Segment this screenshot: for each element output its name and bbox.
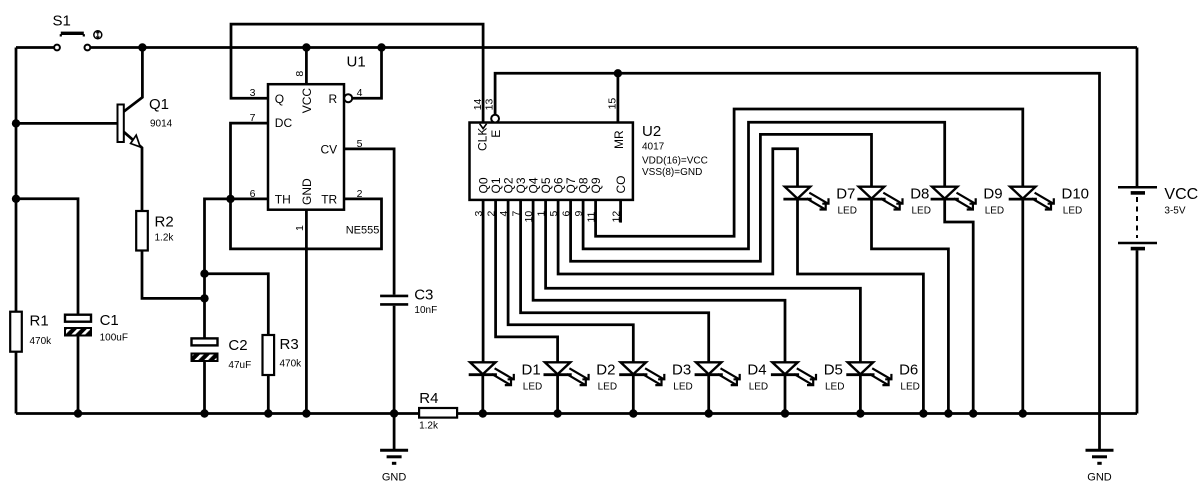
wire C1 top from left rail <box>16 199 78 315</box>
svg-text:C1: C1 <box>100 312 119 329</box>
LED D1 <box>469 362 514 385</box>
battery VCC wire top <box>1136 48 1139 188</box>
svg-text:LED: LED <box>825 381 844 392</box>
wire VCC top rail from S1 to battery <box>90 46 1137 49</box>
wire TR loop <box>231 199 382 249</box>
wire R1 bottom to ground rail <box>15 352 18 414</box>
svg-text:470k: 470k <box>30 336 53 347</box>
battery VCC plate long top <box>1118 186 1157 189</box>
svg-text:4017: 4017 <box>642 141 665 152</box>
node junction dot C1 on bottom rail <box>74 409 82 417</box>
svg-text:CO: CO <box>614 176 628 194</box>
wire U1 pin3 Q output to U2 CLK <box>231 24 483 122</box>
wire Q1 base from left rail <box>16 122 118 125</box>
svg-text:LED: LED <box>900 381 919 392</box>
svg-text:D2: D2 <box>596 361 615 378</box>
svg-text:D7: D7 <box>836 186 855 203</box>
wire D4 cathode to rail <box>707 375 710 414</box>
wire D1 cathode to rail <box>481 375 484 414</box>
node junction dot U1 pin4 wire on VCC rail <box>377 43 385 51</box>
node junction dot R3 branch <box>200 270 208 278</box>
svg-text:S1: S1 <box>53 13 71 30</box>
resistor R1 body <box>10 312 22 352</box>
svg-text:R: R <box>329 92 338 106</box>
svg-text:C3: C3 <box>414 287 433 304</box>
wire Q5 to D6 <box>546 200 861 362</box>
capacitor C1 positive plate <box>65 315 91 322</box>
capacitor C1 negative hatched plate <box>65 328 91 336</box>
svg-text:8: 8 <box>294 71 306 77</box>
ground symbol right <box>1086 450 1114 463</box>
wire D2 cathode to rail <box>556 375 559 414</box>
svg-text:6: 6 <box>250 188 256 200</box>
capacitor C2 negative hatched plate <box>192 354 218 362</box>
svg-text:VCC: VCC <box>300 88 314 114</box>
svg-text:R3: R3 <box>280 336 299 353</box>
svg-text:LED: LED <box>985 206 1004 217</box>
ground symbol left <box>380 450 408 463</box>
wire Q8 to D9 <box>583 122 945 249</box>
svg-text:LED: LED <box>598 381 617 392</box>
svg-text:R4: R4 <box>419 390 438 407</box>
resistor R2 body <box>136 211 148 251</box>
node junction dot base wire on left rail <box>12 119 20 127</box>
svg-text:3-5V: 3-5V <box>1164 206 1185 217</box>
node junction dot U1 pin1 on bottom rail <box>302 409 310 417</box>
svg-text:7: 7 <box>250 112 256 124</box>
wire U1 pin5 CV to C3 <box>344 149 394 295</box>
battery VCC plate short top <box>1131 191 1145 195</box>
wire U1 pin8 VCC <box>305 48 308 85</box>
battery VCC plate short bottom <box>1131 247 1145 251</box>
wire VCC top rail left segment (left rail to S1) <box>16 46 54 49</box>
svg-text:47uF: 47uF <box>228 360 251 371</box>
wire U1 pin7 DC to node <box>231 123 269 199</box>
counter U2 CLK arrow <box>480 124 487 129</box>
svg-text:Q: Q <box>275 92 284 106</box>
svg-text:D10: D10 <box>1062 186 1090 203</box>
wire U1 pin4 to VCC rail <box>352 48 381 99</box>
svg-text:LED: LED <box>673 381 692 392</box>
svg-text:1: 1 <box>294 225 306 231</box>
svg-text:LED: LED <box>1063 206 1082 217</box>
battery VCC plate long bottom <box>1118 242 1157 245</box>
wire Q3 to D4 <box>521 200 709 362</box>
svg-text:1.2k: 1.2k <box>419 421 439 432</box>
svg-text:GND: GND <box>1087 472 1112 484</box>
node junction dot MR on E rail <box>614 69 622 77</box>
svg-text:LED: LED <box>838 206 857 217</box>
svg-text:E: E <box>489 130 503 138</box>
node junction dot U1 pin8 on VCC rail <box>302 43 310 51</box>
svg-text:CLK: CLK <box>475 128 489 151</box>
svg-text:TR: TR <box>321 193 337 207</box>
wire left rail vertical <box>15 48 18 312</box>
battery VCC wire bottom <box>1136 250 1139 413</box>
svg-text:DC: DC <box>275 116 293 130</box>
node junction dot D8 on rail <box>944 409 952 417</box>
svg-text:NE555: NE555 <box>346 225 380 237</box>
svg-text:5: 5 <box>357 138 363 150</box>
svg-text:GND: GND <box>382 472 407 484</box>
node junction dot D10 on rail <box>1019 409 1027 417</box>
svg-text:U1: U1 <box>347 54 366 71</box>
svg-text:D8: D8 <box>910 186 929 203</box>
transistor Q1 emitter arrow <box>131 135 141 147</box>
wire D7 cathode to rail <box>798 199 924 413</box>
wire U2 E and MR rail to right side <box>495 73 1099 450</box>
svg-text:D1: D1 <box>522 361 541 378</box>
transistor Q1 base bar <box>118 105 124 143</box>
node junction dot D9 on rail <box>969 409 977 417</box>
switch S1 contact circle left <box>54 45 60 51</box>
svg-text:D9: D9 <box>983 186 1002 203</box>
svg-text:Q9: Q9 <box>589 177 603 193</box>
svg-text:4: 4 <box>357 87 363 99</box>
node junction dot Q1 collector on VCC rail <box>138 43 146 51</box>
svg-text:Q1: Q1 <box>149 96 169 113</box>
svg-text:MR: MR <box>612 130 626 149</box>
LED D4 <box>695 362 740 385</box>
node junction dot D5 on rail <box>781 409 789 417</box>
svg-text:D4: D4 <box>747 361 766 378</box>
switch S1 actuator bar <box>61 32 84 37</box>
LED D10 <box>1009 187 1054 210</box>
svg-text:2: 2 <box>357 188 363 200</box>
wire Q1 emitter diagonal <box>124 132 142 211</box>
wire Q4 to D5 <box>533 200 785 362</box>
svg-text:1.2k: 1.2k <box>155 233 175 244</box>
svg-text:LED: LED <box>523 381 542 392</box>
svg-text:D5: D5 <box>824 361 843 378</box>
svg-text:13: 13 <box>484 98 496 110</box>
svg-text:LED: LED <box>912 206 931 217</box>
wire ground bottom rail left <box>16 412 419 415</box>
svg-text:U2: U2 <box>642 123 661 140</box>
switch S1 push-direction symbol <box>94 31 102 39</box>
svg-text:TH: TH <box>275 193 291 207</box>
wire Q7 to D8 <box>571 134 872 261</box>
wire U1 pin4 R with bubble <box>344 94 352 102</box>
wire R2 bottom to C2 node <box>142 251 205 299</box>
svg-text:10nF: 10nF <box>414 305 437 316</box>
resistor R4 body <box>419 408 457 418</box>
node junction dot C1 wire on left rail <box>12 195 20 203</box>
svg-text:100uF: 100uF <box>100 332 128 343</box>
wire D8 cathode to rail <box>872 199 949 413</box>
wire Q9 to D10 <box>596 109 1023 236</box>
svg-text:R2: R2 <box>155 214 174 231</box>
svg-text:D6: D6 <box>899 361 918 378</box>
svg-text:C2: C2 <box>228 337 247 354</box>
wire D9 cathode to rail <box>945 199 974 413</box>
svg-text:14: 14 <box>472 98 484 110</box>
node junction dot D1 on rail <box>479 409 487 417</box>
svg-text:LED: LED <box>749 381 768 392</box>
wire D5 cathode to rail <box>784 375 787 414</box>
switch S1 contact circle right <box>85 45 91 51</box>
wire C3 bottom to ground rail <box>393 306 396 414</box>
LED D5 <box>771 362 816 385</box>
wire U2 pin12 CO stub <box>619 200 622 223</box>
wire Q6 to D7 <box>558 149 797 274</box>
svg-text:12: 12 <box>611 211 623 223</box>
wire D6 cathode to rail <box>859 375 862 414</box>
counter U2 4017 box <box>470 123 633 200</box>
LED D6 <box>846 362 891 385</box>
wire D3 cathode to rail <box>632 375 635 414</box>
wire Q1 to D2 <box>496 200 558 362</box>
LED D9 <box>931 187 976 210</box>
node junction dot D6 on rail <box>856 409 864 417</box>
wire U1 pin1 GND to bottom rail <box>305 210 308 414</box>
node junction dot DC-TH node <box>226 195 234 203</box>
node junction dot D7 on rail <box>919 409 927 417</box>
svg-text:GND: GND <box>300 178 314 205</box>
node junction dot D2 on rail <box>553 409 561 417</box>
svg-text:CV: CV <box>321 143 338 157</box>
wire C2 bottom to ground rail <box>203 361 206 414</box>
svg-text:470k: 470k <box>280 359 303 370</box>
node junction dot D4 on rail <box>705 409 713 417</box>
wire Q2 to D3 <box>508 200 633 362</box>
capacitor C2 positive plate <box>192 338 218 345</box>
wire to left ground symbol <box>393 414 396 451</box>
wire D10 cathode to rail <box>1021 199 1024 413</box>
svg-text:VCC: VCC <box>1164 186 1198 203</box>
svg-text:VSS(8)=GND: VSS(8)=GND <box>642 167 702 178</box>
op-amp U1 NE555 box <box>268 84 344 210</box>
svg-text:VDD(16)=VCC: VDD(16)=VCC <box>642 155 708 166</box>
svg-text:R1: R1 <box>30 313 49 330</box>
svg-text:3: 3 <box>250 87 256 99</box>
LED D8 <box>857 187 902 210</box>
node junction dot GND/C3 on bottom rail <box>390 409 398 417</box>
resistor R3 body <box>263 335 275 375</box>
capacitor C3 plate bottom <box>380 303 408 306</box>
wire C1 bottom to ground rail <box>77 336 80 414</box>
node junction dot R2 branch <box>200 294 208 302</box>
svg-text:15: 15 <box>606 98 618 110</box>
wire bottom rail right of R4 <box>457 412 1137 415</box>
wire R3 branch <box>205 274 269 335</box>
wire U2 pin13 E bubble <box>491 115 499 123</box>
node junction dot D3 on rail <box>629 409 637 417</box>
node junction dot C2 on bottom rail <box>200 409 208 417</box>
wire U2 pin15 MR <box>617 73 620 122</box>
wire U1 pin6 TH to C2 <box>205 199 269 339</box>
LED D7 <box>783 187 828 210</box>
battery VCC dashed middle <box>1136 197 1138 238</box>
LED D2 <box>544 362 589 385</box>
LED D3 <box>619 362 664 385</box>
svg-text:9014: 9014 <box>150 119 173 130</box>
node junction dot R3 on bottom rail <box>264 409 272 417</box>
wire Q0 to D1 <box>482 200 485 362</box>
capacitor C3 plate top <box>380 295 408 298</box>
wire R3 bottom to ground rail <box>267 375 270 414</box>
wire Q1 collector <box>124 48 143 112</box>
svg-text:D3: D3 <box>672 361 691 378</box>
